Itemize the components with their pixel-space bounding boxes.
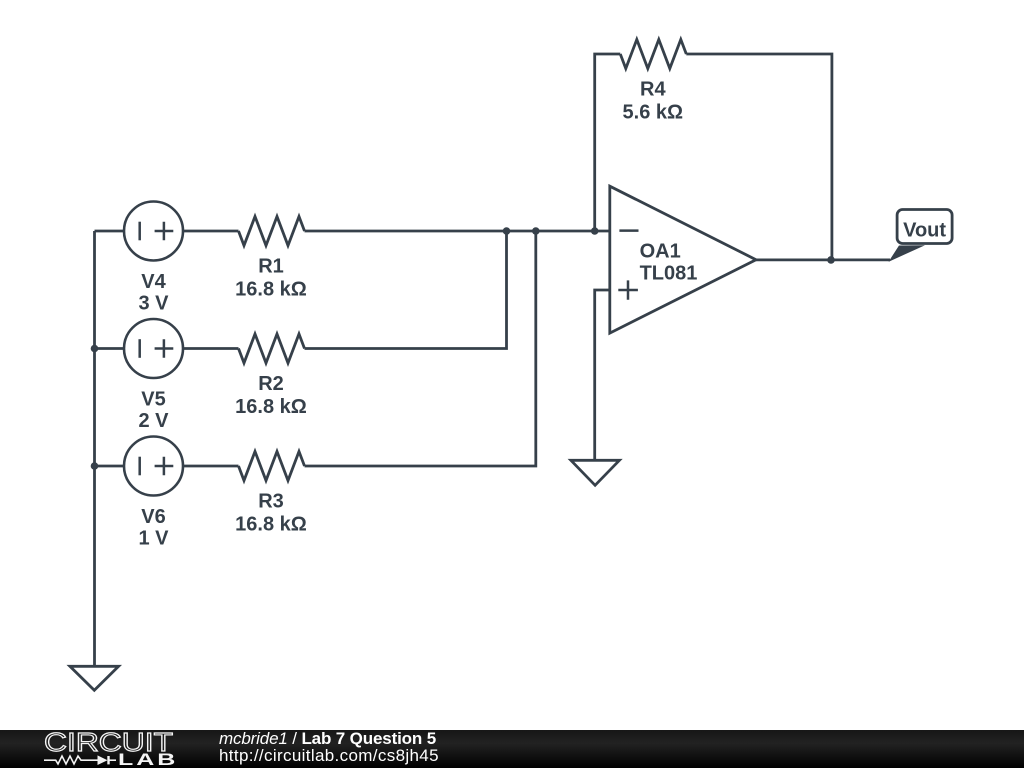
wire R3 up to summing node [305,231,536,466]
label V5 value 2 V [138,389,169,433]
resistor R4 [620,40,686,69]
svg-text:Vout: Vout [903,220,946,242]
resistor R1 [239,217,305,246]
svg-text:1 V: 1 V [138,528,169,550]
wire feedback left vertical [595,54,621,231]
junction rail V5 [91,345,99,353]
junction rail V6 [91,462,99,470]
ground (op-amp +) [571,460,620,485]
wire non-inverting input to ground [595,290,610,460]
voltage source V5 [124,319,183,378]
svg-text:R2: R2 [258,373,284,395]
resistor R3 [239,452,305,481]
label R1 value 16.8 kΩ [235,256,307,301]
CircuitLab logo zigzag and diode [40,730,175,769]
svg-text:R1: R1 [258,256,284,278]
junction R3 summing [532,227,540,235]
svg-text:TL081: TL081 [640,263,698,285]
svg-text:R4: R4 [640,79,666,101]
junction R2 summing [503,227,511,235]
CircuitLab logo word LAB [118,750,178,770]
wire source V4 to resistor R1 [183,230,239,233]
svg-text:V5: V5 [141,389,165,411]
CircuitLab logo word CIRCUIT [44,727,173,758]
wire source V6 to resistor R3 [183,465,239,468]
svg-text:R3: R3 [258,491,284,513]
junction feedback summing [591,227,599,235]
junction output [827,256,835,264]
node Vout flag [889,210,953,262]
footer title text [218,729,220,731]
wire feedback top and right vertical [686,54,832,260]
wire source V5 to resistor R2 [183,347,239,350]
ground (sources) [70,666,119,690]
label R3 value 16.8 kΩ [235,491,307,536]
svg-text:OA1: OA1 [640,241,681,263]
svg-text:3 V: 3 V [138,293,169,315]
wire R2 up to summing node [305,231,507,349]
wire rail to source V5 [95,347,125,350]
voltage source V6 [124,437,183,496]
label V6 value 1 V [138,506,169,550]
wire op-amp output [756,258,890,261]
label R2 value 16.8 kΩ [235,373,307,418]
voltage source V4 [124,202,183,261]
svg-text:5.6 kΩ: 5.6 kΩ [623,102,684,124]
label R4 value 5.6 kΩ [623,79,684,124]
label V4 value 3 V [138,271,169,315]
svg-text:16.8 kΩ: 16.8 kΩ [235,396,307,418]
label OA1 TL081 [640,241,698,285]
wire left rail vertical [93,231,96,666]
svg-text:2 V: 2 V [138,410,169,432]
svg-text:16.8 kΩ: 16.8 kΩ [235,279,307,301]
resistor R2 [239,334,305,363]
wire rail to source V6 [95,465,125,468]
svg-text:V4: V4 [141,271,166,293]
wire R1 to op-amp inverting input [305,230,610,233]
svg-text:V6: V6 [141,506,165,528]
wire rail to source V4 [95,230,125,233]
svg-text:16.8 kΩ: 16.8 kΩ [235,514,307,536]
op-amp OA1 TL081 [610,186,756,333]
